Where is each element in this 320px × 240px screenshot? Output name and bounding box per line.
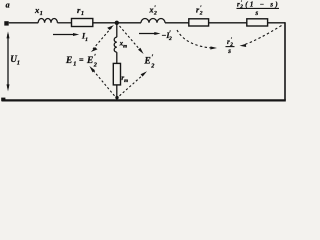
- svg-text:2: 2: [239, 5, 243, 10]
- svg-text:a: a: [6, 1, 10, 10]
- svg-text:2: 2: [93, 62, 97, 69]
- svg-text:′: ′: [151, 54, 153, 62]
- svg-text:=: =: [79, 55, 84, 64]
- svg-text:2: 2: [199, 11, 203, 17]
- EMF arrow E1 (upper-left dashed, double-headed): [91, 25, 114, 52]
- wire x'2 to r'2: [165, 22, 189, 24]
- svg-text:E: E: [65, 56, 72, 66]
- EMF arrow E'2 (lower-right dashed): [120, 71, 148, 96]
- svg-text:E: E: [86, 56, 93, 66]
- inductor xm (magnetizing reactance): [114, 37, 127, 52]
- svg-text:1: 1: [73, 61, 76, 68]
- wire top-left segment: [9, 22, 39, 24]
- node x (bottom-left terminal): [1, 98, 5, 101]
- wire xm to rm: [116, 52, 118, 63]
- wire rm to bottom rail: [116, 85, 118, 100]
- svg-text:2: 2: [150, 62, 154, 69]
- resistor r'2(1-s)/s (load): [237, 0, 280, 26]
- resistor r'2: [189, 5, 209, 26]
- EMF arrow (upper-right dashed): [120, 26, 144, 54]
- wire r1 to node: [93, 22, 141, 24]
- svg-text:′: ′: [94, 53, 96, 61]
- label E'2 (right of branch): [144, 54, 155, 70]
- inductor x'2: [141, 5, 165, 22]
- wire right edge (vertical): [284, 22, 286, 100]
- dashed arc arrow to r'2/s (left): [177, 30, 217, 50]
- wire load to right edge: [268, 22, 285, 24]
- node a (top-left terminal): [4, 1, 9, 26]
- resistor r1: [72, 5, 93, 27]
- EMF arrow (lower-left dashed): [89, 66, 114, 96]
- value label r'2/s: [226, 37, 235, 55]
- resistor rm (core-loss resistance): [113, 63, 128, 85]
- svg-text:s: s: [255, 9, 259, 17]
- wire node to xm: [116, 23, 118, 37]
- svg-text:x: x: [149, 6, 154, 15]
- dashed arc arrow to r'2/s (right): [240, 26, 282, 48]
- node junction (bottom of magnetizing branch): [115, 96, 118, 99]
- current arrow -I'2: [139, 31, 172, 43]
- svg-text:E: E: [144, 57, 151, 67]
- svg-text:s: s: [227, 47, 231, 55]
- label E1 = E'2: [65, 53, 97, 69]
- wire bottom rail: [2, 99, 286, 101]
- inductor x1: [34, 5, 57, 23]
- svg-text:2: 2: [168, 36, 172, 42]
- wire x1 to r1: [57, 22, 71, 24]
- svg-text:2: 2: [153, 11, 157, 17]
- wire r'2 to load resistor: [209, 22, 247, 24]
- voltage arrow U1: [7, 31, 20, 91]
- node junction (top of magnetizing branch): [115, 21, 119, 25]
- svg-text:(1 − s): (1 − s): [245, 0, 278, 8]
- current arrow I1: [53, 32, 88, 43]
